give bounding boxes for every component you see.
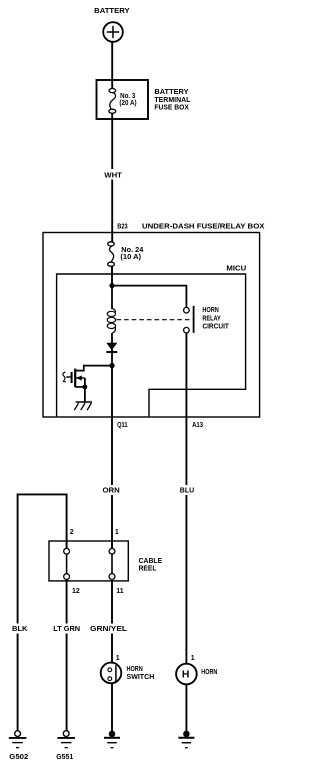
fuse No.24 (10 A) <box>108 242 115 267</box>
svg-text:UNDER-DASH FUSE/RELAY BOX: UNDER-DASH FUSE/RELAY BOX <box>142 224 265 231</box>
svg-text:(20 A): (20 A) <box>119 100 136 107</box>
horn switch <box>101 663 122 684</box>
cable reel internal wire pin1-pin11 <box>111 555 113 574</box>
svg-text:B23: B23 <box>117 223 127 230</box>
junction node (fuse to coil / relay contact) <box>109 283 114 288</box>
dashed mechanical link coil to contact <box>117 319 194 321</box>
battery positive terminal symbol <box>103 22 123 42</box>
cable reel box <box>49 541 128 581</box>
wire junction to relay contact <box>112 286 186 307</box>
svg-text:CABLE: CABLE <box>139 558 163 565</box>
svg-text:ORN: ORN <box>103 488 120 495</box>
wire fuse No.24 to junction <box>111 266 113 286</box>
svg-text:GRN/YEL: GRN/YEL <box>90 626 128 633</box>
battery terminal fuse box (box outline) <box>97 80 149 119</box>
horn <box>176 664 197 685</box>
body ground G502 <box>9 731 27 748</box>
svg-text:1: 1 <box>191 655 195 662</box>
wire battery to fuse box <box>111 42 113 89</box>
cable reel pin 12 <box>64 574 70 580</box>
wire label ORN <box>101 485 122 495</box>
svg-text:BLU: BLU <box>180 488 194 495</box>
svg-text:G502: G502 <box>9 754 28 761</box>
wire WHT (fuse box to under-dash box) <box>111 113 113 242</box>
svg-text:RELAY: RELAY <box>202 315 221 322</box>
cable reel pin 1 <box>109 548 115 554</box>
wire label GRN/YEL <box>89 624 129 634</box>
wire label WHT <box>103 169 124 180</box>
svg-text:1: 1 <box>115 529 119 536</box>
wire junction2 through Q11 to cable reel pin 1 (ORN) <box>111 366 113 548</box>
svg-text:LT GRN: LT GRN <box>53 626 80 633</box>
horn relay contact <box>184 306 194 333</box>
svg-text:(10 A): (10 A) <box>120 254 141 261</box>
junction node (diode / transistor drain / Q11) <box>109 363 114 368</box>
svg-text:REEL: REEL <box>139 566 157 573</box>
svg-text:CIRCUIT: CIRCUIT <box>202 323 229 330</box>
wire cable reel pin 2 to BLK (hook) <box>18 494 67 730</box>
svg-text:2: 2 <box>70 529 74 536</box>
wire horn to ground <box>185 684 187 732</box>
wire pin 11 to horn switch (GRN/YEL) <box>111 580 113 663</box>
chassis ground (horn) <box>178 731 194 748</box>
svg-text:HORN: HORN <box>202 307 218 314</box>
wire label BLU <box>178 485 196 495</box>
svg-text:BATTERY: BATTERY <box>94 8 130 15</box>
svg-text:12: 12 <box>72 588 80 595</box>
svg-text:Q11: Q11 <box>117 422 128 429</box>
horn relay coil <box>111 286 113 309</box>
wire diode to junction2 <box>111 349 113 366</box>
wire pin 12 to G551 (LT GRN) <box>66 580 68 731</box>
svg-text:11: 11 <box>116 588 124 595</box>
chassis ground (transistor source) <box>74 402 92 410</box>
svg-text:BLK: BLK <box>12 626 28 633</box>
svg-text:TERMINAL: TERMINAL <box>154 97 191 104</box>
svg-text:G551: G551 <box>56 754 73 761</box>
MICU box <box>57 274 246 416</box>
wire horn switch to ground <box>111 683 113 732</box>
svg-text:BATTERY: BATTERY <box>154 89 189 96</box>
svg-text:HORN: HORN <box>201 669 217 676</box>
svg-text:H: H <box>182 669 190 680</box>
wire label BLK <box>11 624 30 634</box>
svg-text:MICU: MICU <box>226 266 246 273</box>
svg-text:SWITCH: SWITCH <box>127 674 155 681</box>
fuse No.3 (20 A) <box>109 89 116 114</box>
diode (coil suppression) <box>106 343 117 350</box>
chassis ground (horn switch) <box>104 731 120 748</box>
svg-text:A13: A13 <box>192 422 203 429</box>
svg-text:1: 1 <box>116 655 120 662</box>
svg-text:No. 24: No. 24 <box>121 247 143 254</box>
svg-text:FUSE BOX: FUSE BOX <box>154 105 189 112</box>
cable reel pin 11 <box>109 574 115 580</box>
wire relay contact to horn (BLU / A13) <box>185 333 187 663</box>
svg-text:WHT: WHT <box>104 172 122 179</box>
wire label LT GRN <box>52 624 82 634</box>
body ground G551 <box>57 731 75 748</box>
under-dash fuse/relay box <box>43 233 260 418</box>
svg-text:No. 3: No. 3 <box>120 93 135 100</box>
cable reel internal wire pin2-pin12 <box>66 555 68 574</box>
cable reel pin 2 <box>64 548 70 554</box>
transistor Q (FET driver) <box>63 366 112 402</box>
svg-text:HORN: HORN <box>127 666 143 673</box>
